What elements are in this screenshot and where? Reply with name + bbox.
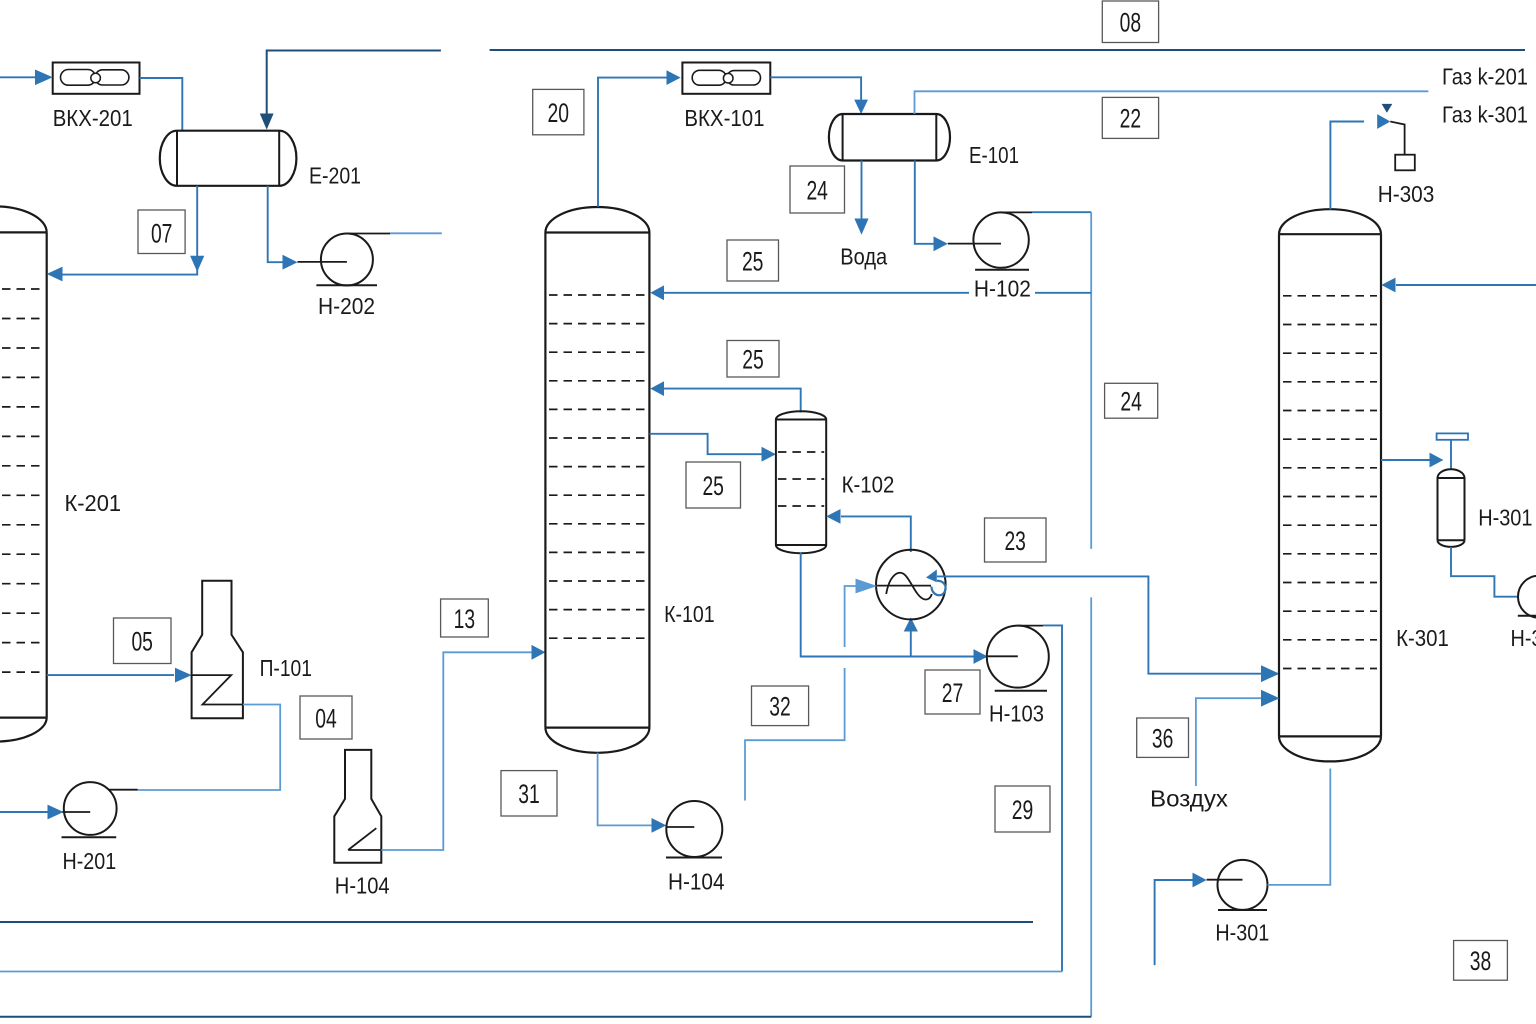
wire K-301 sidedraw to H-301 vessel: [1381, 440, 1451, 469]
air cooler BKX-101: [682, 63, 770, 94]
wire K-301 overhead to H-303: [1330, 114, 1390, 209]
wire exchanger to K-102 return: [826, 509, 911, 552]
wire E-101 water outlet: [854, 161, 868, 235]
svg-text:Газ k-301: Газ k-301: [1442, 102, 1528, 128]
wire K-101 bottoms to H-104 stream 31: [598, 753, 667, 833]
box 27: [925, 670, 980, 714]
wire H-104 to K-101 stream 13: [381, 645, 545, 850]
label H-102: [969, 276, 1035, 302]
wire E-201 right outlet to H-202: [268, 186, 283, 262]
svg-text:25: 25: [742, 246, 764, 276]
pump H-102: [973, 212, 1029, 269]
svg-text:Н-302: Н-302: [1511, 625, 1536, 651]
svg-text:Н-104: Н-104: [668, 869, 725, 895]
wire air line stream 36: [1196, 690, 1280, 786]
box 29: [995, 786, 1050, 832]
furnace P-101: [192, 581, 243, 719]
box 36: [1137, 718, 1189, 757]
box 24 left: [790, 166, 845, 213]
svg-text:29: 29: [1012, 795, 1034, 825]
svg-text:Н-104: Н-104: [335, 873, 390, 899]
drum E-201: [160, 131, 297, 186]
trays K-301: [1283, 296, 1377, 669]
svg-text:К-102: К-102: [842, 472, 895, 498]
svg-text:04: 04: [315, 703, 337, 733]
column K-301: [1279, 209, 1381, 761]
arrow into H-202: [283, 255, 298, 270]
wire K-102 bottoms to H-103: [801, 553, 988, 664]
wire bottom navy line 2: [0, 1016, 1091, 1018]
svg-text:22: 22: [1120, 104, 1142, 134]
svg-text:23: 23: [1004, 526, 1026, 556]
column K-201: [0, 206, 47, 741]
wire bottom navy line 1: [0, 921, 1033, 923]
wire K-101 overhead stream 20: [598, 70, 681, 207]
air cooler BKX-201: [53, 63, 140, 94]
wire E-101 to pump H-102: [915, 161, 1001, 252]
wire feed into K-301 right side: [1381, 278, 1536, 293]
svg-text:Н-301: Н-301: [1478, 505, 1532, 531]
vent bar above H-301: [1437, 433, 1468, 439]
pump H-301 bottom: [1218, 860, 1268, 910]
column K-102: [776, 411, 826, 553]
svg-text:Е-201: Е-201: [309, 163, 361, 189]
pump H-201: [62, 782, 117, 837]
wire E-101 vapor line Gas k-201: [915, 91, 1429, 114]
arrow down at corner 07: [190, 256, 204, 272]
svg-text:ВКХ-101: ВКХ-101: [684, 105, 764, 131]
wire P-101 outlet to pump H-201: [108, 705, 280, 791]
svg-text:20: 20: [548, 98, 570, 128]
box 23: [985, 518, 1047, 562]
vessel H-301: [1438, 469, 1465, 547]
pump H-202: [298, 234, 378, 286]
svg-text:К-101: К-101: [664, 601, 715, 627]
wire H-301 vessel bottoms to pump: [1451, 547, 1519, 597]
wire exchanger outlet to K-301 stream 23: [937, 576, 1280, 682]
wire BKX-201 to E-201: [140, 78, 183, 130]
svg-text:Н-103: Н-103: [989, 701, 1044, 727]
svg-text:К-301: К-301: [1396, 625, 1449, 651]
wire suction into pump H-301 bottom: [1155, 873, 1243, 966]
wire stream 32 pump H-104 to exchanger: [745, 579, 877, 801]
svg-text:Вода: Вода: [840, 244, 887, 270]
box 07: [138, 210, 185, 254]
svg-text:ВКХ-201: ВКХ-201: [53, 105, 133, 131]
wire K-101 sidedraw to K-102 stream 25: [649, 434, 776, 462]
svg-text:К-201: К-201: [65, 490, 122, 516]
svg-text:36: 36: [1152, 724, 1174, 754]
furnace H-104 left: [334, 750, 381, 863]
box 25 mid: [727, 341, 779, 378]
wire H-202 discharge: [347, 232, 442, 234]
wire navy top-left: [267, 51, 441, 115]
pump H-302 right edge: [1518, 576, 1536, 618]
svg-text:Н-303: Н-303: [1378, 181, 1435, 207]
wire K-301 bottoms to pump H-301: [1268, 769, 1331, 885]
svg-text:Н-301: Н-301: [1215, 920, 1269, 946]
box 38: [1454, 941, 1508, 981]
pump H-104 center: [666, 801, 722, 858]
svg-text:Н-102: Н-102: [974, 276, 1031, 302]
svg-text:13: 13: [454, 604, 476, 634]
box 24 right: [1105, 383, 1158, 418]
wire riser x1091 lower: [1090, 597, 1092, 1016]
box 20: [533, 89, 584, 134]
wire navy top header line: [490, 49, 1525, 51]
box 25 top: [727, 240, 779, 281]
svg-text:Е-101: Е-101: [969, 142, 1019, 168]
svg-text:32: 32: [769, 692, 791, 722]
svg-text:24: 24: [806, 175, 828, 205]
drum E-101: [829, 114, 950, 161]
svg-text:Н-202: Н-202: [318, 293, 375, 319]
svg-text:П-101: П-101: [260, 655, 312, 681]
svg-text:38: 38: [1470, 946, 1492, 976]
svg-text:25: 25: [702, 471, 724, 501]
svg-text:24: 24: [1120, 387, 1142, 417]
wire BKX-101 outlet to E-101: [770, 77, 861, 100]
wire reflux to K-101 stream 25: [650, 285, 1091, 300]
wire H-102 discharge: [1001, 211, 1091, 213]
trays K-201: [0, 289, 42, 672]
column K-101: [545, 207, 649, 753]
svg-text:08: 08: [1120, 8, 1142, 38]
svg-text:05: 05: [131, 627, 153, 657]
wire riser x1091 upper: [1090, 212, 1092, 549]
wire suction into H-201: [0, 805, 64, 820]
wire H-103 discharge stream 29: [0, 625, 1062, 971]
pump H-103: [987, 626, 1049, 691]
arrow into K-201 stream 07: [47, 267, 63, 282]
vent valve H-303: [1382, 104, 1415, 170]
box 05: [114, 618, 172, 664]
box 25 lower: [686, 462, 741, 508]
wire K-102 overhead to K-101 stream 25: [650, 381, 800, 412]
svg-text:Воздух: Воздух: [1150, 786, 1229, 812]
trays K-102: [778, 452, 824, 506]
svg-text:27: 27: [942, 678, 964, 708]
box 31: [501, 771, 557, 816]
wire feed into BKX-201: [0, 70, 53, 86]
svg-text:Н-201: Н-201: [63, 848, 117, 874]
arrow navy into E-201 top: [260, 114, 274, 130]
svg-text:25: 25: [742, 345, 764, 375]
box 04: [300, 696, 352, 739]
box 22: [1102, 97, 1158, 138]
svg-text:31: 31: [518, 779, 540, 809]
wire E-201 left outlet stream 07: [60, 186, 197, 275]
box 08: [1102, 1, 1158, 43]
box 32: [752, 686, 809, 726]
trays K-101: [549, 295, 646, 638]
wire branch up into exchanger: [904, 618, 918, 657]
heat exchanger circle: [876, 550, 946, 620]
arrow into E-101 top: [854, 100, 868, 114]
wire K-201 to furnace P-101 stream 05: [47, 668, 192, 683]
box 13: [441, 599, 489, 637]
svg-text:Газ k-201: Газ k-201: [1442, 64, 1528, 90]
svg-text:07: 07: [151, 219, 173, 249]
